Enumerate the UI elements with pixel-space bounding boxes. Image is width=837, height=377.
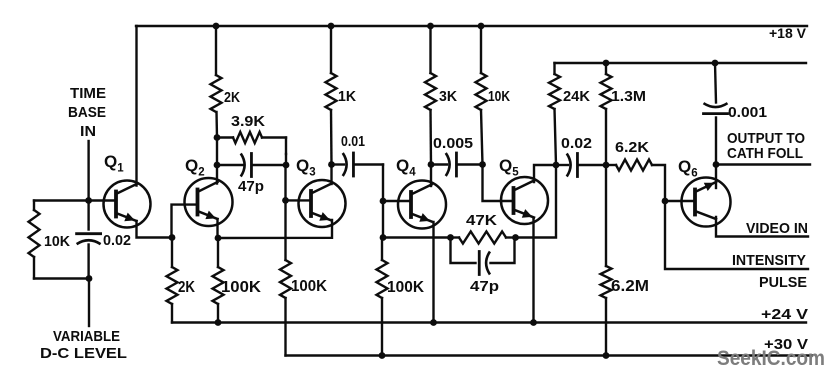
wire Q6 base <box>665 200 695 202</box>
svg-text:D-C LEVEL: D-C LEVEL <box>40 345 127 362</box>
label 24K <box>563 88 590 105</box>
resistor 2K Q2 collector load lead <box>216 26 217 138</box>
wire Q5 collector <box>534 165 556 182</box>
label 0.02 input <box>103 232 131 249</box>
label 0.005 <box>433 135 473 152</box>
net label +18 V <box>769 25 807 41</box>
svg-text:0.005: 0.005 <box>433 135 473 152</box>
node 3.9K junction <box>214 134 221 141</box>
node Q2 emitter junction <box>215 235 222 242</box>
node Q1 emitter / Q2 base junction <box>169 234 176 241</box>
wire variable d-c level <box>88 279 90 327</box>
resistor 24K <box>549 74 560 109</box>
label 0.01 <box>341 133 365 150</box>
wire 47K right <box>451 236 516 238</box>
resistor 2K Q2 base pulldown lead <box>171 238 173 268</box>
wire Q4 collector <box>430 165 432 187</box>
resistor 24K lead <box>555 63 557 165</box>
resistor 3K <box>425 73 436 110</box>
node +18V rail junction 2K <box>213 23 220 30</box>
resistor 2K pulldown bottom lead <box>171 304 173 323</box>
svg-text:Q6: Q6 <box>678 157 698 180</box>
resistor 100K Q4 <box>377 260 388 298</box>
resistor 6.2K leads <box>606 165 665 201</box>
wire 10K input branch bottom <box>34 257 89 279</box>
resistor 2K Q2 base pulldown <box>167 267 178 304</box>
wire Q4 base to feedback node <box>382 201 384 238</box>
net label +24 V <box>761 306 808 323</box>
label Q5 <box>499 156 519 179</box>
svg-text:Q1: Q1 <box>104 152 124 175</box>
capacitor 47p feedback loop <box>451 238 515 264</box>
svg-text:6.2K: 6.2K <box>615 139 649 156</box>
wire +18V supply rail <box>136 25 807 27</box>
resistor 100K Q3 base lead <box>284 200 286 260</box>
label Q2 <box>185 156 205 179</box>
label 0.02 coupling <box>561 135 592 152</box>
wire Q5 emitter <box>532 218 534 323</box>
svg-text:100K: 100K <box>291 278 327 295</box>
resistor 100K Q2 emitter bottom lead <box>217 304 219 323</box>
resistor 1.3M <box>601 74 612 109</box>
svg-text:1K: 1K <box>338 88 356 105</box>
resistor 1K <box>326 73 337 110</box>
node +18V rail junction 3K <box>427 23 434 30</box>
wire Q6 emitter <box>715 165 717 189</box>
label 47p coupling <box>238 178 264 195</box>
wire Q3 base <box>286 199 312 201</box>
svg-text:IN: IN <box>80 123 96 140</box>
svg-text:0.001: 0.001 <box>728 104 767 121</box>
capacitor 0.005 leads <box>431 163 483 165</box>
svg-text:0.01: 0.01 <box>341 133 365 150</box>
label 100K Q4 <box>387 279 424 296</box>
svg-text:Q5: Q5 <box>499 156 519 179</box>
label 0.001 <box>728 104 767 121</box>
wire output line <box>716 163 810 165</box>
label 6.2M <box>611 278 649 295</box>
resistor 10K lead <box>481 26 483 165</box>
capacitor 0.01 leads <box>332 163 384 165</box>
svg-text:1.3M: 1.3M <box>611 88 646 105</box>
wire feedback row <box>383 236 451 238</box>
resistor 100K Q3 base <box>280 260 291 298</box>
svg-text:47K: 47K <box>466 212 497 229</box>
svg-text:10K: 10K <box>44 233 70 250</box>
node +18V rail junction 1K <box>328 23 335 30</box>
label 3K <box>439 88 457 105</box>
wire +30V supply rail <box>286 354 813 356</box>
node 0.005-10K junction <box>479 161 486 168</box>
svg-text:47p: 47p <box>238 178 264 195</box>
svg-text:+24 V: +24 V <box>761 306 808 323</box>
svg-text:INTENSITY: INTENSITY <box>732 252 806 269</box>
label 2K pulldown <box>178 279 195 296</box>
capacitor 0.02 input <box>77 234 101 244</box>
wire to Q4 base <box>382 165 384 202</box>
svg-text:Q4: Q4 <box>396 156 416 179</box>
transistor Q6 <box>682 178 731 227</box>
label 3.9K <box>231 113 265 130</box>
svg-text:PULSE: PULSE <box>759 274 807 291</box>
svg-text:2K: 2K <box>178 279 195 296</box>
label 10K mid <box>488 88 510 105</box>
label Q3 <box>296 156 316 179</box>
node 47K left junction <box>447 234 454 241</box>
node 47p-3.9K junction <box>283 162 290 169</box>
capacitor 0.001 <box>704 103 728 113</box>
resistor 3.9K leads <box>217 138 286 155</box>
resistor 10K <box>476 73 487 110</box>
label 10K input <box>44 233 70 250</box>
net label +30 V <box>764 336 808 353</box>
node 0.02-1.3M-6.2M junction <box>603 162 610 169</box>
svg-text:24K: 24K <box>563 88 590 105</box>
svg-text:0.02: 0.02 <box>561 135 592 152</box>
svg-text:3K: 3K <box>439 88 457 105</box>
capacitor 0.005 <box>446 153 457 176</box>
wire second supply rail (bypass bus) <box>555 62 807 64</box>
net label VIDEO IN <box>746 220 808 237</box>
watermark SeekIC.com <box>717 347 825 370</box>
label 100K Q3 base <box>291 278 327 295</box>
wire Q6 collector / video in <box>716 217 808 237</box>
resistor 3K lead <box>429 26 432 165</box>
label Q1 <box>104 152 124 175</box>
resistor 100K Q4 lead <box>381 238 383 261</box>
resistor 10K input <box>29 210 40 257</box>
node Q6 base junction <box>662 198 669 205</box>
capacitor 0.02 input top lead <box>87 201 89 230</box>
node +24V rail junction 100K <box>215 319 222 326</box>
node Q4 base junction <box>380 198 387 205</box>
transistor Q5 <box>501 177 548 224</box>
resistor 100K Q3 bottom lead <box>284 298 286 356</box>
resistor 100K Q4 bottom lead <box>381 298 383 356</box>
capacitor 47p coupling <box>241 154 252 177</box>
node +24V rail junction Q4 emitter <box>430 319 437 326</box>
wire feedback to Q5 collector <box>516 165 557 238</box>
svg-text:100K: 100K <box>387 279 424 296</box>
wire intensity pulse <box>665 201 808 269</box>
svg-text:Q3: Q3 <box>296 156 316 179</box>
resistor 6.2M lead <box>605 165 607 266</box>
capacitor 47p coupling leads <box>217 164 286 166</box>
transistor Q2 <box>185 178 233 226</box>
node 47K right junction <box>512 234 519 241</box>
node Q6 emitter junction <box>713 161 720 168</box>
label Q4 <box>396 156 416 179</box>
label 47p feedback <box>470 278 499 295</box>
resistor 1K lead <box>330 26 333 165</box>
wire to Q3 base <box>284 154 287 200</box>
capacitor 0.02 input bottom lead <box>87 245 89 279</box>
node +30V rail junction 100K <box>379 352 386 359</box>
node +30V rail junction 6.2M <box>603 352 610 359</box>
label Q6 <box>678 157 698 180</box>
node Q5 collector junction <box>553 162 560 169</box>
capacitor 0.02 coupling <box>567 154 578 177</box>
resistor 2K Q2 collector load <box>211 75 222 112</box>
transistor Q1 <box>104 181 151 228</box>
net label OUTPUT TO CATH FOLL <box>727 130 805 162</box>
resistor 3.9K <box>233 132 262 143</box>
wire Q4 emitter <box>432 222 434 323</box>
capacitor 47p feedback <box>479 252 490 275</box>
wire Q3 collector <box>330 165 332 185</box>
wire Q2 collector <box>216 138 218 184</box>
node second rail junction 0.001 <box>712 60 719 67</box>
wire Q2-Q3 emitter tie <box>218 220 332 238</box>
transistor Q3 <box>299 180 346 227</box>
svg-text:100K: 100K <box>221 279 261 296</box>
svg-text:CATH FOLL: CATH FOLL <box>727 145 803 162</box>
svg-text:+18 V: +18 V <box>769 25 807 41</box>
svg-text:47p: 47p <box>470 278 499 295</box>
svg-text:SeekIC.com: SeekIC.com <box>717 347 825 370</box>
wire Q2 base <box>172 205 198 238</box>
label 2K collector load <box>224 89 240 106</box>
resistor 100K Q2 emitter lead <box>217 238 219 267</box>
net label TIME BASE IN <box>68 85 106 140</box>
resistor 6.2M bottom lead <box>605 298 607 356</box>
capacitor 0.001 leads <box>715 63 716 165</box>
label 1K <box>338 88 356 105</box>
node +24V rail junction Q5 emitter <box>530 319 537 326</box>
svg-text:BASE: BASE <box>68 104 106 121</box>
svg-text:VARIABLE: VARIABLE <box>53 328 120 345</box>
net label INTENSITY PULSE <box>732 252 807 291</box>
resistor 1.3M lead <box>605 63 607 165</box>
node second rail junction 1.3M <box>603 60 610 67</box>
label 6.2K <box>615 139 649 156</box>
wire Q2 emitter <box>216 219 218 238</box>
wire Q1 base row <box>34 199 116 201</box>
transistor Q4 <box>398 181 446 229</box>
svg-text:6.2M: 6.2M <box>611 278 649 295</box>
resistor 6.2M <box>601 266 612 298</box>
node Q4 collector junction <box>428 161 435 168</box>
node Q2 collector junction <box>214 162 221 169</box>
svg-text:10K: 10K <box>488 88 510 105</box>
net label VARIABLE D-C LEVEL <box>40 328 127 362</box>
svg-text:Q2: Q2 <box>185 156 205 179</box>
wire Q1 collector <box>135 26 137 186</box>
node Q4 feedback junction <box>380 234 387 241</box>
node variable dc junction <box>86 275 93 282</box>
wire Q1 emitter <box>137 221 173 238</box>
label 100K Q2 emitter <box>221 279 261 296</box>
svg-text:3.9K: 3.9K <box>231 113 265 130</box>
wire to Q5 base <box>483 165 514 202</box>
resistor 47K <box>459 232 506 244</box>
node Q3 collector junction <box>328 161 335 168</box>
wire Q4 base <box>383 200 411 202</box>
node +18V rail junction 10K <box>478 23 485 30</box>
label 1.3M <box>611 88 646 105</box>
capacitor 0.01 <box>343 153 354 176</box>
svg-text:VIDEO IN: VIDEO IN <box>746 220 808 237</box>
capacitor 0.02 coupling leads <box>556 164 606 166</box>
wire 10K input branch top <box>33 201 35 211</box>
resistor 6.2K <box>616 160 652 171</box>
label 47K <box>466 212 497 229</box>
wire time base input <box>87 141 89 201</box>
node Q3 base junction <box>282 197 289 204</box>
svg-text:TIME: TIME <box>70 85 106 102</box>
svg-text:2K: 2K <box>224 89 240 106</box>
wire +24V supply rail <box>172 321 806 323</box>
resistor 100K Q2 emitter <box>213 267 224 304</box>
node Q1 base junction <box>85 197 92 204</box>
svg-text:0.02: 0.02 <box>103 232 131 249</box>
